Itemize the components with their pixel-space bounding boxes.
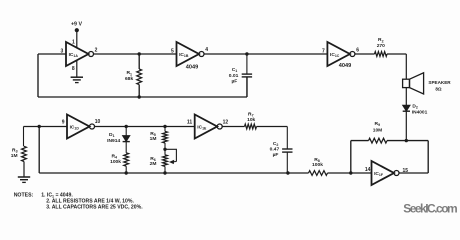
svg-text:1M: 1M — [11, 153, 18, 159]
svg-text:R5: R5 — [150, 131, 156, 137]
svg-text:2: 2 — [95, 48, 98, 54]
svg-text:IC1A: IC1A — [69, 52, 79, 58]
svg-text:C2: C2 — [273, 141, 279, 147]
svg-text:IC1C: IC1C — [330, 52, 340, 58]
svg-text:10M: 10M — [373, 127, 383, 133]
svg-text:3: 3 — [61, 49, 64, 55]
svg-text:+9 V: +9 V — [71, 22, 83, 28]
svg-text:5: 5 — [171, 48, 174, 54]
svg-text:SPEAKER: SPEAKER — [428, 80, 451, 85]
svg-text:7: 7 — [322, 48, 325, 54]
svg-text:SeekIC.com: SeekIC.com — [403, 202, 457, 216]
svg-text:IC1D: IC1D — [70, 125, 80, 131]
svg-text:R1: R1 — [126, 70, 132, 76]
svg-text:R8: R8 — [314, 157, 320, 163]
svg-text:10k: 10k — [247, 117, 255, 123]
svg-text:6: 6 — [356, 47, 359, 53]
svg-text:IC1B: IC1B — [179, 52, 189, 58]
svg-text:100k: 100k — [312, 162, 323, 168]
svg-text:12: 12 — [223, 119, 229, 125]
svg-text:µF: µF — [231, 79, 237, 85]
svg-text:9: 9 — [62, 120, 65, 126]
svg-text:11: 11 — [187, 120, 193, 126]
svg-text:14: 14 — [365, 167, 371, 173]
svg-text:R2: R2 — [378, 37, 384, 43]
svg-text:µF: µF — [273, 152, 279, 158]
svg-text:10: 10 — [95, 119, 101, 125]
svg-text:IC1E: IC1E — [197, 125, 207, 131]
svg-text:R4: R4 — [111, 154, 117, 160]
svg-text:IC1F: IC1F — [374, 171, 384, 177]
svg-text:270: 270 — [377, 43, 385, 49]
svg-text:IN914: IN914 — [107, 138, 120, 144]
svg-text:D1: D1 — [109, 132, 115, 138]
svg-text:100k: 100k — [110, 159, 121, 165]
svg-text:R3: R3 — [12, 148, 18, 154]
svg-text:0.47: 0.47 — [270, 146, 280, 152]
svg-text:1: 1 — [72, 40, 75, 46]
svg-text:0.01: 0.01 — [229, 73, 239, 79]
svg-text:C1: C1 — [232, 67, 238, 73]
svg-text:68k: 68k — [125, 76, 133, 82]
svg-text:8: 8 — [72, 66, 75, 72]
svg-text:IN4001: IN4001 — [412, 110, 428, 116]
svg-text:8Ω: 8Ω — [435, 87, 442, 92]
svg-text:R6: R6 — [150, 156, 156, 162]
svg-text:R9: R9 — [375, 121, 381, 127]
svg-text:D2: D2 — [412, 103, 417, 109]
svg-text:4049: 4049 — [339, 63, 351, 69]
svg-text:4: 4 — [205, 47, 208, 53]
svg-text:R7: R7 — [248, 111, 254, 117]
svg-text:NOTES:: NOTES: — [14, 192, 34, 198]
svg-text:3. ALL CAPACITORS ARE 25 VDC,: 3. ALL CAPACITORS ARE 25 VDC, 20%. — [46, 204, 143, 210]
svg-text:1M: 1M — [150, 136, 157, 142]
svg-text:4049: 4049 — [186, 64, 198, 70]
svg-text:2M: 2M — [150, 161, 157, 167]
